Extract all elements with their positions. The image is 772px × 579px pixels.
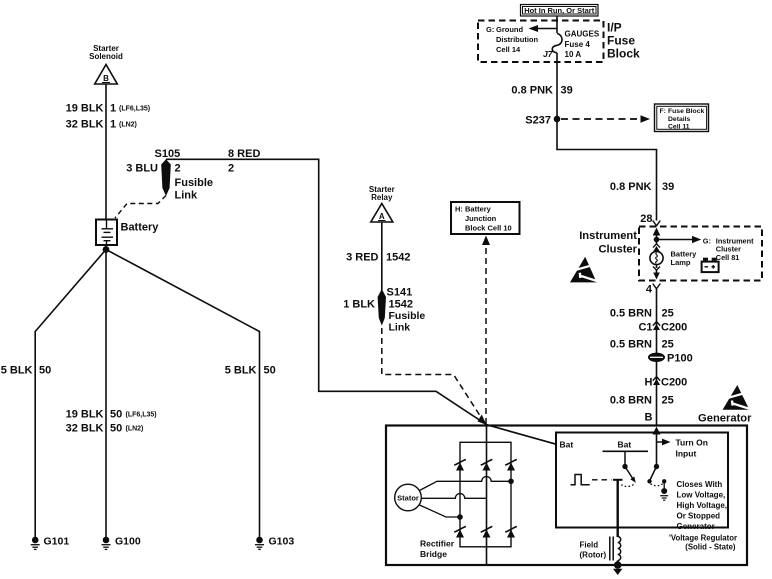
svg-text:Block Cell 10: Block Cell 10 — [465, 224, 512, 233]
label 3 RED 1542 — [346, 252, 410, 264]
svg-text:Fusible: Fusible — [175, 177, 214, 189]
svg-text:(LN2): (LN2) — [126, 426, 144, 433]
starter solenoid label — [89, 44, 123, 61]
label 19 BLK 50 (LF6,L35) — [66, 409, 157, 421]
label 0.5 BRN 25 — [610, 308, 674, 320]
fusible link F141 — [378, 289, 386, 326]
svg-text:Or Stopped: Or Stopped — [677, 512, 721, 521]
svg-text:(Rotor): (Rotor) — [580, 551, 607, 560]
diode D2 — [481, 459, 493, 470]
svg-text:B: B — [103, 74, 109, 83]
svg-text:1542: 1542 — [389, 299, 413, 311]
svg-text:50: 50 — [110, 409, 122, 421]
label 0.8 PNK 39 — [511, 85, 572, 97]
svg-text:1542: 1542 — [386, 252, 410, 264]
svg-text:2: 2 — [175, 163, 181, 175]
svg-text:2: 2 — [228, 163, 234, 175]
svg-text:19 BLK: 19 BLK — [66, 103, 104, 115]
svg-text:32 BLK: 32 BLK — [66, 119, 104, 131]
label G: Ground Distribution Cell 14 — [486, 25, 538, 54]
svg-text:H:: H: — [455, 205, 463, 214]
label 5 BLK 50 (left) — [1, 365, 52, 377]
svg-text:Bat: Bat — [560, 440, 574, 450]
label 1542 Fusible Link — [389, 299, 426, 334]
label 0.8 BRN 25 — [610, 395, 674, 407]
svg-text:Fusible: Fusible — [389, 310, 426, 322]
label Voltage Regulator (Solid-State) — [669, 534, 737, 552]
label I/P Fuse Block — [607, 21, 640, 61]
svg-text:5 BLK: 5 BLK — [225, 365, 257, 377]
svg-text:C1: C1 — [638, 322, 652, 334]
fusible link F105 — [161, 159, 171, 196]
battery B1 — [96, 220, 117, 246]
svg-text:0.8 BRN: 0.8 BRN — [610, 395, 652, 407]
switch S1: stem and pivot — [622, 451, 627, 469]
svg-text:Field: Field — [580, 541, 599, 550]
svg-text:C200: C200 — [661, 377, 687, 389]
field contact T-bar — [613, 479, 623, 481]
label 5 BLK 50 (right) — [225, 365, 276, 377]
svg-text:25: 25 — [662, 308, 674, 320]
stator wire A (top) — [420, 477, 514, 491]
F: Fuse Block Details box — [655, 104, 709, 132]
junction node at generator top — [486, 425, 488, 565]
field coil core bars — [610, 537, 613, 561]
svg-text:25: 25 — [662, 339, 674, 351]
ESD symbol (instrument cluster) — [570, 257, 598, 283]
voltage regulator box — [556, 433, 728, 528]
H: Battery Junction Block box — [451, 202, 520, 234]
svg-text:1: 1 — [110, 119, 116, 131]
svg-text:Lamp: Lamp — [671, 258, 691, 267]
svg-text:S237: S237 — [525, 115, 551, 127]
wire: hot box into fuse — [556, 16, 558, 33]
label 0.8 PNK 39 (second) — [610, 181, 674, 193]
svg-text:10 A: 10 A — [565, 50, 582, 59]
label 19 BLK 1 (LF6,L35) — [66, 103, 151, 115]
svg-text:1 BLK: 1 BLK — [343, 299, 375, 311]
svg-text:50: 50 — [110, 423, 122, 435]
field coil windings — [618, 537, 621, 561]
svg-text:Cell 14: Cell 14 — [496, 45, 521, 54]
svg-text:Link: Link — [389, 322, 411, 334]
svg-text:28: 28 — [640, 213, 652, 225]
wire: battery to G101 — [35, 250, 106, 538]
svg-text:Ground: Ground — [496, 25, 523, 34]
svg-text:25: 25 — [662, 395, 674, 407]
svg-text:50: 50 — [264, 365, 276, 377]
svg-text:32 BLK: 32 BLK — [66, 423, 104, 435]
svg-text:Cell 11: Cell 11 — [668, 123, 690, 130]
svg-text:8 RED: 8 RED — [228, 148, 260, 160]
diode D5 — [481, 526, 493, 537]
svg-text:0.8 PNK: 0.8 PNK — [511, 85, 553, 97]
label Rectifier Bridge — [420, 539, 455, 560]
diode D4 — [454, 526, 466, 537]
svg-text:S105: S105 — [155, 148, 181, 160]
ground G101 — [31, 536, 70, 550]
svg-text:Hot In Run, Or Start: Hot In Run, Or Start — [524, 6, 595, 15]
svg-text:Instrument: Instrument — [579, 230, 637, 242]
svg-text:G100: G100 — [115, 536, 141, 548]
switch S1: travel arc — [621, 484, 634, 487]
svg-text:Cell 81: Cell 81 — [716, 253, 740, 262]
battery icon in cluster — [702, 258, 719, 272]
wire: S237 to instrument cluster — [557, 119, 657, 221]
label 32 BLK 50 (LN2) — [66, 423, 144, 435]
svg-text:GAUGES: GAUGES — [565, 30, 600, 39]
wire: dashed S141 to junction — [382, 328, 482, 418]
ground G100 — [102, 536, 141, 550]
svg-text:Fuse Block: Fuse Block — [668, 108, 704, 115]
wire: dashed S237 to F box — [561, 115, 650, 122]
connector C1 C200 — [638, 322, 687, 334]
svg-text:Bat: Bat — [618, 440, 632, 450]
label 0.5 BRN 25 (second) — [610, 339, 674, 351]
stator wire B (middle) — [421, 494, 486, 499]
connector H C200 — [645, 377, 688, 389]
label Instrument Cluster — [579, 230, 637, 256]
svg-text:G103: G103 — [269, 536, 295, 548]
node S237 — [525, 115, 560, 127]
svg-text:Details: Details — [668, 116, 691, 123]
connector socket at pin 28 — [653, 221, 661, 226]
label Field (Rotor) — [580, 541, 607, 560]
svg-text:39: 39 — [662, 181, 674, 193]
node: battery junction — [103, 245, 110, 253]
svg-text:Solenoid: Solenoid — [89, 52, 123, 61]
connector pin arrow at B — [653, 427, 661, 467]
svg-text:High Voltage,: High Voltage, — [677, 501, 728, 510]
svg-text:Cluster: Cluster — [598, 244, 637, 256]
arrowhead into H box — [482, 236, 490, 246]
starter solenoid triangle B — [95, 65, 118, 85]
arrowhead into junction — [478, 415, 487, 425]
I/P fuse block dashed box — [478, 21, 604, 63]
starter relay label — [369, 185, 395, 202]
svg-text:(LF6,L35): (LF6,L35) — [126, 412, 157, 419]
svg-text:(LN2): (LN2) — [119, 122, 137, 129]
svg-text:Input: Input — [676, 449, 697, 459]
svg-text:5 BLK: 5 BLK — [1, 365, 33, 377]
svg-text:(LF6,L35): (LF6,L35) — [119, 106, 150, 113]
svg-text:G:: G: — [703, 237, 711, 246]
switch S2: pivot on B wire — [654, 464, 659, 469]
svg-text:Relay: Relay — [371, 193, 393, 202]
svg-text:Distribution: Distribution — [496, 35, 538, 44]
stator wire C (bottom) — [420, 505, 463, 520]
switch S2: arm — [647, 467, 656, 484]
wire: starter solenoid to battery — [105, 84, 107, 220]
svg-text:Turn On: Turn On — [676, 438, 708, 448]
svg-text:Link: Link — [175, 190, 198, 202]
ESD symbol (generator) — [723, 385, 751, 410]
svg-text:F:: F: — [660, 108, 666, 115]
svg-text:Battery: Battery — [121, 222, 160, 234]
connector pin arrow at 28 (inside box) — [653, 228, 661, 240]
rectifier bridge box — [460, 442, 511, 547]
label G: Instrument Cluster Cell 81 — [703, 237, 754, 262]
svg-text:4: 4 — [646, 284, 653, 296]
svg-text:0.8 PNK: 0.8 PNK — [610, 181, 652, 193]
svg-text:B: B — [645, 412, 653, 424]
svg-text:S141: S141 — [387, 287, 413, 299]
svg-text:J7: J7 — [543, 49, 554, 59]
svg-text:Generator: Generator — [698, 413, 752, 425]
svg-text:Fuse: Fuse — [607, 34, 635, 48]
wire + connector above battery lamp — [653, 240, 660, 252]
starter relay triangle A — [371, 204, 393, 223]
bat contact bar — [603, 450, 649, 452]
svg-text:I/P: I/P — [607, 21, 622, 35]
node: lamp feed junction + arrow to G: instrument cluster — [654, 236, 702, 243]
wire: battery to G103 — [106, 250, 260, 538]
svg-text:1: 1 — [110, 103, 116, 115]
svg-text:3 BLU: 3 BLU — [126, 163, 158, 175]
wire: dashed junction to H box — [485, 243, 487, 424]
ground at generator case — [613, 561, 622, 576]
svg-text:C200: C200 — [661, 322, 687, 334]
instrument cluster dashed box — [639, 227, 762, 281]
wire: fuse to S237 — [556, 53, 558, 119]
svg-text:G:: G: — [486, 25, 494, 34]
svg-text:Block: Block — [607, 47, 640, 61]
svg-text:Closes With: Closes With — [677, 480, 723, 489]
svg-text:H: H — [645, 377, 653, 389]
wire: battery to G100 — [105, 250, 107, 538]
Hot In Run Or Start box — [521, 5, 599, 17]
svg-text:G101: G101 — [44, 536, 70, 548]
label Battery Lamp — [671, 250, 698, 267]
svg-text:Generator: Generator — [677, 522, 715, 531]
label 32 BLK 1 (LN2) — [66, 119, 137, 131]
svg-text:(Solid - State): (Solid - State) — [685, 543, 736, 552]
switch S2: travel arc — [651, 484, 664, 486]
svg-text:50: 50 — [39, 365, 51, 377]
svg-text:Stator: Stator — [397, 494, 419, 503]
fuse GAUGES Fuse 4 10A — [552, 34, 562, 53]
svg-text:Low Voltage,: Low Voltage, — [677, 491, 726, 500]
svg-text:P100: P100 — [667, 353, 693, 365]
arrow: turn on input — [657, 438, 708, 459]
battery lamp L1 — [650, 251, 663, 264]
svg-text:19 BLK: 19 BLK — [66, 409, 104, 421]
wire: dashed battery to fusible link — [115, 196, 166, 219]
contact + ground (regulator) — [660, 479, 668, 500]
wire: starter relay to S141 — [381, 222, 383, 291]
svg-text:Rectifier: Rectifier — [420, 539, 455, 549]
svg-text:39: 39 — [561, 85, 573, 97]
stator — [395, 484, 422, 511]
svg-text:A: A — [379, 212, 385, 221]
wire: pin 4 to generator B — [656, 289, 658, 427]
diode D1 — [454, 459, 466, 470]
grommet P100 — [648, 353, 693, 365]
dashed link pulse to field — [592, 479, 612, 481]
svg-text:0.5 BRN: 0.5 BRN — [610, 308, 652, 320]
arrow to G: ground distribution — [529, 25, 558, 32]
diode D6 — [505, 526, 517, 537]
wire: field rotor — [617, 480, 619, 537]
svg-text:Junction: Junction — [465, 214, 497, 223]
connector socket at pin 4 — [653, 284, 661, 289]
wire 8 RED: S105 to generator Bat terminal — [166, 159, 556, 444]
label Closes With ... — [677, 480, 728, 531]
label 2 Fusible Link — [175, 163, 214, 202]
svg-text:3 RED: 3 RED — [346, 252, 378, 264]
svg-text:Battery: Battery — [465, 205, 492, 214]
svg-text:Bridge: Bridge — [420, 549, 447, 559]
ground G103 — [255, 536, 294, 550]
pulse waveform — [571, 475, 590, 485]
generator box — [386, 426, 747, 566]
svg-text:Fuse 4: Fuse 4 — [565, 40, 591, 49]
diode D3 — [505, 459, 517, 470]
wire + connector below battery lamp — [653, 265, 660, 280]
svg-text:0.5 BRN: 0.5 BRN — [610, 339, 652, 351]
svg-text:'Voltage Regulator: 'Voltage Regulator — [669, 534, 737, 543]
switch S1: arm — [625, 467, 636, 483]
